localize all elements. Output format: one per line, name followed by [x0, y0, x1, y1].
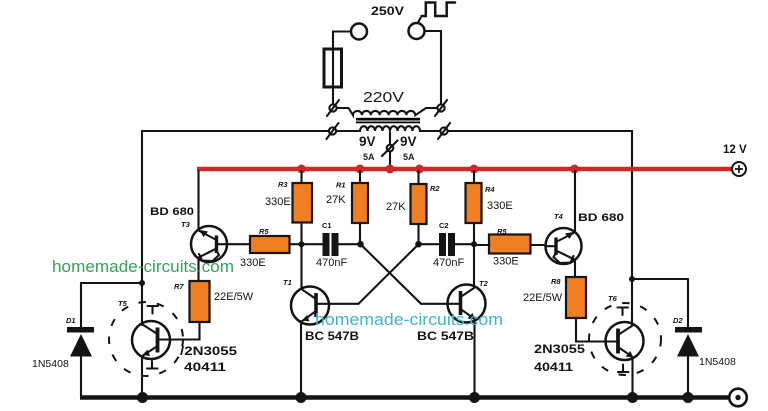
node D T2 collector: [471, 241, 477, 247]
transformer T1 primary winding: [337, 108, 438, 115]
fuse F1: [324, 49, 342, 87]
diode D2 1N5408: [675, 279, 702, 397]
resistor R2: [411, 184, 427, 224]
transformer secondary terminal left: [329, 127, 336, 134]
svg-text:250V: 250V: [371, 4, 404, 18]
svg-text:220V: 220V: [363, 89, 404, 106]
ground node T2: [469, 392, 480, 403]
wire R7 to T5 base: [170, 322, 200, 340]
wire T5 emitter to ground: [141, 356, 143, 397]
square wave symbol: [422, 3, 455, 17]
wire: [419, 18, 421, 22]
svg-text:R5: R5: [497, 227, 507, 236]
node C C2 left: [415, 241, 422, 248]
wire T1 emitter to ground: [300, 321, 302, 397]
wire: [417, 171, 419, 244]
svg-text:T6: T6: [608, 294, 618, 303]
wire: [389, 152, 391, 168]
svg-text:T3: T3: [181, 220, 191, 229]
transistor T3 BD680: [191, 226, 227, 262]
svg-text:470nF: 470nF: [316, 257, 347, 269]
wire: [473, 171, 475, 244]
svg-text:9V: 9V: [400, 134, 417, 149]
wire node B to T2 base (cross coupling): [361, 244, 448, 304]
transistor T6 2N3055: [589, 303, 661, 375]
svg-text:40411: 40411: [184, 360, 226, 374]
wire T5 collector: [141, 283, 143, 325]
resistor R5 left: [250, 236, 290, 253]
transformer secondary terminal right: [440, 127, 447, 134]
svg-text:330E: 330E: [240, 257, 266, 269]
svg-text:R5: R5: [259, 227, 269, 236]
wire: [300, 171, 302, 244]
svg-text:330E: 330E: [493, 256, 519, 268]
node T4 rail junction: [570, 165, 579, 174]
wire T4 collector to R8: [574, 261, 576, 278]
wire rail to T3 emitter: [197, 171, 199, 230]
resistor R3: [293, 183, 313, 223]
wire T3 collector to R7: [197, 259, 199, 282]
ground node T6: [627, 392, 638, 403]
svg-text:5A: 5A: [363, 152, 375, 162]
svg-text:R7: R7: [174, 282, 184, 291]
svg-text:40411: 40411: [534, 360, 573, 374]
transistor T2 BC547B: [448, 285, 486, 323]
transformer core: [356, 118, 420, 121]
svg-text:330E: 330E: [265, 196, 291, 208]
wire D1 top: [81, 282, 142, 284]
node R3 rail junction: [297, 165, 306, 174]
svg-text:T4: T4: [554, 212, 564, 221]
svg-text:5A: 5A: [403, 152, 415, 162]
svg-text:R3: R3: [278, 180, 288, 189]
svg-text:27K: 27K: [386, 201, 406, 213]
ground node D2: [683, 392, 694, 403]
svg-text:R1: R1: [336, 181, 346, 190]
resistor R1: [352, 183, 368, 223]
transformer primary terminal left: [329, 104, 336, 111]
transformer secondary winding: [336, 126, 440, 131]
+12V terminal: [732, 162, 746, 176]
svg-text:1N5408: 1N5408: [699, 356, 736, 368]
resistor R8: [566, 277, 586, 318]
transistor T4 BD680: [546, 228, 582, 264]
wire: [333, 32, 351, 105]
node center-tap rail junction: [386, 165, 395, 174]
svg-text:BC 547B: BC 547B: [417, 329, 474, 343]
+12V red rail: [197, 167, 732, 172]
svg-text:R4: R4: [485, 185, 495, 194]
svg-text:27K: 27K: [326, 194, 346, 206]
wire: [227, 243, 302, 245]
wire secondary right to T6 collector: [448, 131, 632, 279]
center tap connector: [387, 145, 394, 152]
wire: [359, 171, 361, 244]
svg-text:BC 547B: BC 547B: [305, 329, 359, 343]
ground node T1: [296, 392, 307, 403]
wire T6 collector: [631, 279, 633, 326]
transistor T1 BC547B: [291, 287, 329, 325]
diode D1 1N5408: [67, 283, 94, 397]
svg-text:2N3055: 2N3055: [534, 342, 585, 356]
svg-text:C1: C1: [322, 221, 332, 230]
node B C1 right: [357, 241, 364, 248]
svg-text:22E/5W: 22E/5W: [523, 292, 563, 304]
transistor T5 2N3055: [109, 302, 183, 376]
wire secondary left to T5 collector: [142, 131, 329, 283]
transformer primary terminal right: [437, 104, 444, 111]
svg-text:T5: T5: [118, 299, 128, 308]
svg-text:homemade-circuits.com: homemade-circuits.com: [52, 257, 234, 276]
node R1 rail junction: [356, 165, 365, 174]
node D2/T6 collector junction: [629, 276, 635, 282]
wire D2 top: [632, 278, 688, 280]
ground node T5: [137, 392, 148, 403]
svg-text:BD 680: BD 680: [578, 212, 624, 224]
transformer center tap wire: [389, 132, 391, 144]
node R2 rail junction: [415, 165, 424, 174]
resistor R5 right: [489, 235, 531, 254]
node D1/T5 collector junction: [139, 280, 145, 286]
ground rail: [80, 395, 728, 399]
output socket terminal left: [351, 24, 367, 40]
svg-text:D2: D2: [673, 316, 683, 325]
svg-text:12 V: 12 V: [723, 144, 747, 156]
svg-text:R8: R8: [551, 277, 561, 286]
capacitor C2: [419, 233, 475, 256]
svg-text:470nF: 470nF: [433, 257, 464, 269]
wire node D to T2 collector: [473, 244, 475, 288]
wire: [425, 31, 442, 105]
svg-text:T1: T1: [283, 278, 292, 287]
ground terminal: [729, 389, 747, 407]
resistor R7: [190, 281, 210, 322]
capacitor C1: [302, 233, 361, 256]
svg-text:330E: 330E: [487, 200, 513, 212]
wire T6 emitter to ground: [631, 357, 633, 397]
svg-text:9V: 9V: [359, 134, 376, 149]
wire: [474, 244, 546, 246]
T5 package marks: [147, 361, 158, 369]
wire T2 emitter to ground: [473, 319, 475, 397]
wire rail to T4 emitter: [574, 171, 576, 232]
svg-text:BD 680: BD 680: [150, 206, 194, 218]
node A T1 collector: [299, 241, 305, 247]
resistor R4: [466, 183, 482, 223]
node R4 rail junction: [470, 165, 479, 174]
svg-text:T2: T2: [479, 279, 489, 288]
output socket terminal right: [409, 23, 425, 39]
svg-text:1N5408: 1N5408: [32, 358, 69, 370]
wire node A to T1 collector: [300, 244, 302, 288]
wire node C to T1 base (cross coupling): [329, 244, 419, 304]
svg-text:D1: D1: [66, 316, 76, 325]
svg-text:/2N3055: /2N3055: [180, 344, 237, 358]
svg-text:22E/5W: 22E/5W: [214, 291, 254, 303]
svg-text:C2: C2: [439, 221, 449, 230]
svg-text:R2: R2: [430, 184, 440, 193]
T6 package marks: [618, 365, 629, 373]
svg-text:homemade-circuits.com: homemade-circuits.com: [315, 310, 503, 329]
wire R8 to T6 base: [576, 318, 606, 342]
